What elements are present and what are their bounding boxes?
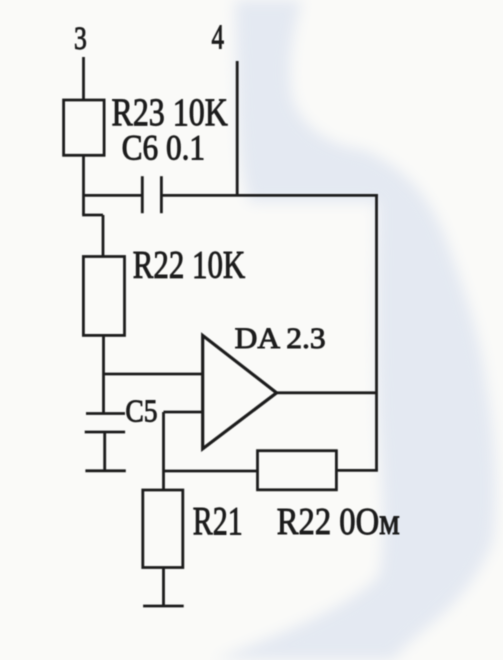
- wire: right rail: [375, 194, 378, 470]
- wire: lead from terminal 4: [236, 61, 239, 196]
- wire: C6 left lead: [84, 194, 143, 197]
- scanner shadow blob: [214, 0, 496, 660]
- wire: jog right to R22 column: [82, 214, 103, 217]
- svg-text:R21: R21: [193, 499, 243, 544]
- resistor R22 0Om (horizontal): [258, 451, 337, 490]
- wire: op-amp lower input: [164, 411, 203, 414]
- ground bar under C5: [85, 469, 125, 472]
- svg-text:3: 3: [74, 21, 87, 57]
- resistor R23: [64, 100, 105, 155]
- wire: feedback to output resistor: [164, 470, 258, 473]
- capacitor C5 top plate: [86, 412, 125, 415]
- wire: C6 right lead to right rail: [161, 194, 378, 197]
- wire: op-amp upper input: [104, 373, 203, 376]
- wire: C5 stem to ground: [103, 432, 106, 471]
- wire: down into R22: [102, 215, 105, 257]
- resistor R21: [143, 490, 183, 568]
- svg-text:4: 4: [212, 18, 225, 57]
- wire: output resistor right lead: [336, 469, 378, 472]
- capacitor C5 bottom plate: [85, 431, 125, 434]
- ground bar under R21: [143, 605, 184, 608]
- svg-text:C5: C5: [125, 393, 157, 429]
- wire: node vertical to R21: [162, 412, 165, 490]
- svg-text:R22 0Ом: R22 0Ом: [277, 501, 400, 543]
- capacitor C6 left plate: [141, 176, 144, 213]
- resistor R22: [83, 257, 124, 336]
- op-amp DA2.3 triangle: [203, 336, 277, 449]
- wire: op-amp output: [277, 391, 377, 394]
- svg-text:C6 0.1: C6 0.1: [122, 128, 206, 168]
- wire: R22 bottom lead down to C5: [102, 335, 105, 413]
- wire: R21 bottom lead: [162, 568, 165, 607]
- svg-text:R22 10K: R22 10K: [133, 244, 245, 287]
- capacitor C6 right plate: [160, 176, 163, 213]
- wire: R23 bottom lead down: [82, 155, 85, 215]
- svg-text:DA 2.3: DA 2.3: [235, 322, 326, 355]
- wire: lead from terminal 3: [82, 57, 85, 100]
